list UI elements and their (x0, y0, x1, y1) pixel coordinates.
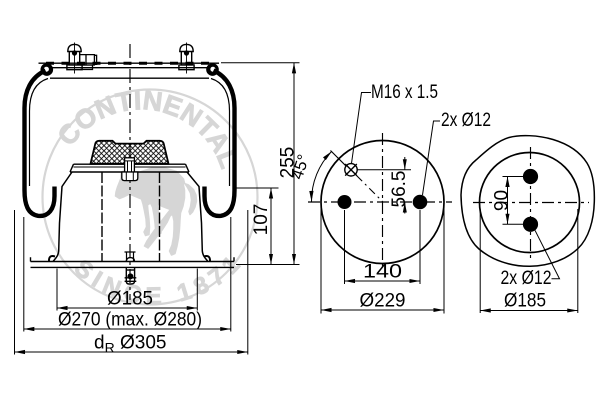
45 degree centre line (331, 151, 346, 166)
leader M16 x 1.5 (352, 93, 372, 164)
svg-text:90: 90 (491, 190, 512, 211)
watermark text SINCE 1871 (39, 188, 271, 304)
svg-text:107: 107 (251, 204, 272, 236)
45 degree arc with arrow (311, 151, 331, 201)
bellows outline right wall (205, 71, 235, 216)
stud bolt left (67, 43, 82, 74)
bellows inner contour right (211, 79, 230, 187)
svg-text:M16 x 1.5: M16 x 1.5 (371, 82, 438, 103)
leader 2x Ø12 (right view) (535, 230, 560, 278)
watermark horse (116, 168, 197, 256)
dimension Ø270 (24, 328, 231, 330)
svg-text:Ø185: Ø185 (504, 291, 546, 312)
top bead plate (39, 63, 220, 78)
extension lines for Ø270 (24, 217, 231, 332)
watermark text CONTINENTAL (57, 110, 225, 194)
extension lines for Ø185 (57, 269, 197, 311)
bolt hole right (middle view) (413, 195, 428, 210)
bellows end hook right (204, 256, 210, 261)
top view circle Ø229 (321, 141, 444, 264)
dimension dR Ø305 (15, 351, 248, 353)
bellows inner contour left (30, 79, 49, 187)
extension line for 107 (236, 187, 279, 189)
watermark ring circle (39, 72, 271, 315)
bellows outline (bottom view, irregular) (461, 136, 594, 267)
piston circle Ø185 (bottom view) (480, 153, 580, 253)
dimension Ø229 (321, 309, 444, 311)
dimension 140 (345, 280, 421, 282)
bead plate rolled edge right (206, 63, 219, 76)
bellows end hook left (49, 256, 55, 261)
rubber bumper (cross-hatched) (91, 141, 169, 164)
air fitting block (80, 55, 97, 70)
svg-text:56.5: 56.5 (389, 171, 410, 208)
base plate (31, 257, 235, 267)
dimension 56.5 (404, 157, 406, 214)
svg-text:dR Ø305: dR Ø305 (94, 333, 166, 356)
extension lines for 140 (345, 210, 421, 284)
stud bolt right (179, 43, 194, 74)
bumper centre bolt (122, 158, 138, 181)
extension line top for 255 (221, 62, 300, 64)
svg-text:2x Ø12: 2x Ø12 (501, 268, 552, 289)
leader 2x Ø12 (middle view) (423, 121, 441, 195)
air fitting M16 (crossed circle) (345, 164, 357, 176)
centre bolt above base plate (125, 252, 136, 262)
center line of side view (129, 44, 131, 300)
centre line vertical (right view) (530, 147, 532, 261)
extension line bottom shared (236, 264, 300, 266)
centre bolt below base plate (125, 258, 137, 284)
bolt hole bottom (right view) (523, 217, 538, 232)
svg-text:2x Ø12: 2x Ø12 (441, 110, 491, 131)
svg-text:Ø270 (max. Ø280): Ø270 (max. Ø280) (58, 310, 202, 331)
piston skirt right (187, 172, 208, 262)
extension lines for 90 (503, 177, 524, 225)
bellows outline left wall (25, 71, 55, 216)
dimension 255 (293, 63, 295, 265)
piston inner wall right (159, 172, 161, 262)
extension lines for Ø229 (321, 207, 444, 314)
piston skirt left (53, 172, 72, 262)
centre line horizontal (308, 201, 452, 203)
bolt hole left (middle view) (338, 195, 352, 209)
svg-text:140: 140 (363, 262, 402, 283)
piston inner wall left (101, 172, 103, 262)
svg-text:Ø229: Ø229 (360, 291, 406, 312)
dimension 90 (507, 177, 509, 225)
svg-text:Ø185: Ø185 (107, 289, 153, 310)
extension lines for Ø305 (15, 210, 248, 355)
extension lines for Ø185 (right view) (480, 209, 578, 313)
piston top plate (70, 164, 189, 172)
dimension 107 (270, 188, 272, 265)
dimension Ø185 bottom (57, 307, 197, 309)
centre line vertical (382, 133, 384, 271)
extension line from fitting for 56.5 (358, 169, 412, 171)
bolt hole top (right view) (523, 169, 538, 184)
bead plate rolled edge left (41, 63, 54, 76)
centre line horizontal (right view) (473, 202, 589, 204)
dimension Ø185 (right view) (480, 310, 578, 312)
